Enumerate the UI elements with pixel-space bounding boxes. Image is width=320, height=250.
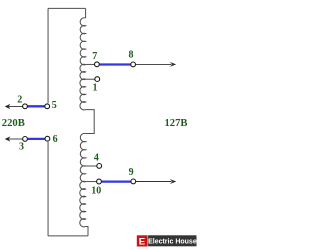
winding lower section a (4 turns) xyxy=(80,133,85,166)
svg-text:7: 7 xyxy=(92,51,97,62)
terminal 5 xyxy=(45,104,50,109)
wire link 2-5 (blue) xyxy=(28,105,45,107)
wire top horizontal xyxy=(48,7,86,9)
wire link 10-9 (blue) xyxy=(102,180,131,182)
terminal 3 xyxy=(23,137,28,142)
svg-text:3: 3 xyxy=(19,141,24,152)
svg-text:E: E xyxy=(139,236,146,247)
terminal 4 xyxy=(97,164,102,169)
terminal 7 xyxy=(95,62,100,67)
wire link 3-6 (blue) xyxy=(28,138,45,140)
winding upper section c (4 turns) xyxy=(80,79,86,110)
svg-text:220В: 220В xyxy=(2,118,25,129)
winding lower section b (2 turns) xyxy=(80,166,85,182)
arrowhead output 9 xyxy=(170,179,177,184)
terminal 1 xyxy=(95,77,100,82)
terminal 9 xyxy=(131,179,136,184)
winding lower section c (6 turns) xyxy=(80,181,86,227)
wire top coil lead-in xyxy=(85,8,87,18)
svg-text:9: 9 xyxy=(129,167,134,178)
svg-text:4: 4 xyxy=(94,153,99,164)
svg-text:6: 6 xyxy=(53,134,58,145)
wire bottom coil lead-out xyxy=(86,227,88,236)
wire output 9 xyxy=(136,181,172,183)
terminal 10 xyxy=(97,179,102,184)
svg-text:Electric House: Electric House xyxy=(148,239,197,246)
wire output 8 xyxy=(136,63,172,65)
tap wire to terminal 7 xyxy=(86,63,95,65)
wire input 3 xyxy=(9,138,23,140)
terminal 8 xyxy=(131,62,136,67)
wire jog between windings xyxy=(86,110,95,134)
wire left vertical lower xyxy=(47,142,49,236)
logo bar xyxy=(148,235,196,246)
svg-text:8: 8 xyxy=(129,50,134,61)
arrowhead output 8 xyxy=(170,62,177,67)
wire left vertical upper xyxy=(47,8,49,103)
wire input 2 xyxy=(9,106,23,108)
svg-text:2: 2 xyxy=(17,94,22,105)
tap wire to terminal 10 xyxy=(86,181,97,183)
svg-text:5: 5 xyxy=(52,100,57,111)
svg-text:127В: 127В xyxy=(165,118,188,129)
winding upper section b (2 turns) xyxy=(80,64,86,79)
tap wire to terminal 4 xyxy=(86,165,97,167)
svg-text:10: 10 xyxy=(91,186,101,197)
svg-text:1: 1 xyxy=(93,82,98,93)
winding upper section a (6 turns) xyxy=(80,18,85,65)
terminal 6 xyxy=(45,136,50,141)
tap wire to terminal 1 xyxy=(86,78,95,80)
wire bottom horizontal xyxy=(48,235,88,237)
terminal 2 xyxy=(23,104,28,109)
arrowhead input 2 xyxy=(5,104,11,109)
wire link 7-8 (blue) xyxy=(100,63,131,65)
arrowhead input 3 xyxy=(5,136,11,141)
logo red square xyxy=(137,235,148,246)
